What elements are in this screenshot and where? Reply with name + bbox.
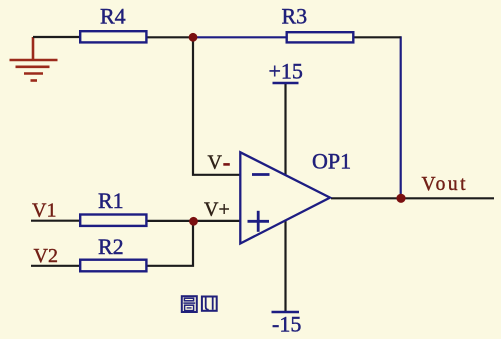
svg-text:R2: R2 <box>98 234 124 259</box>
svg-text:V1: V1 <box>32 199 56 221</box>
svg-text:+15: +15 <box>269 59 303 84</box>
svg-text:V2: V2 <box>34 245 58 267</box>
svg-text:V: V <box>208 152 223 174</box>
svg-text:-15: -15 <box>272 312 301 337</box>
svg-text:R4: R4 <box>100 4 126 29</box>
svg-text:R3: R3 <box>282 4 308 29</box>
svg-text:Vout: Vout <box>422 174 469 195</box>
svg-text:V+: V+ <box>204 199 230 221</box>
svg-text:OP1: OP1 <box>312 149 351 174</box>
svg-text:R1: R1 <box>98 188 124 213</box>
